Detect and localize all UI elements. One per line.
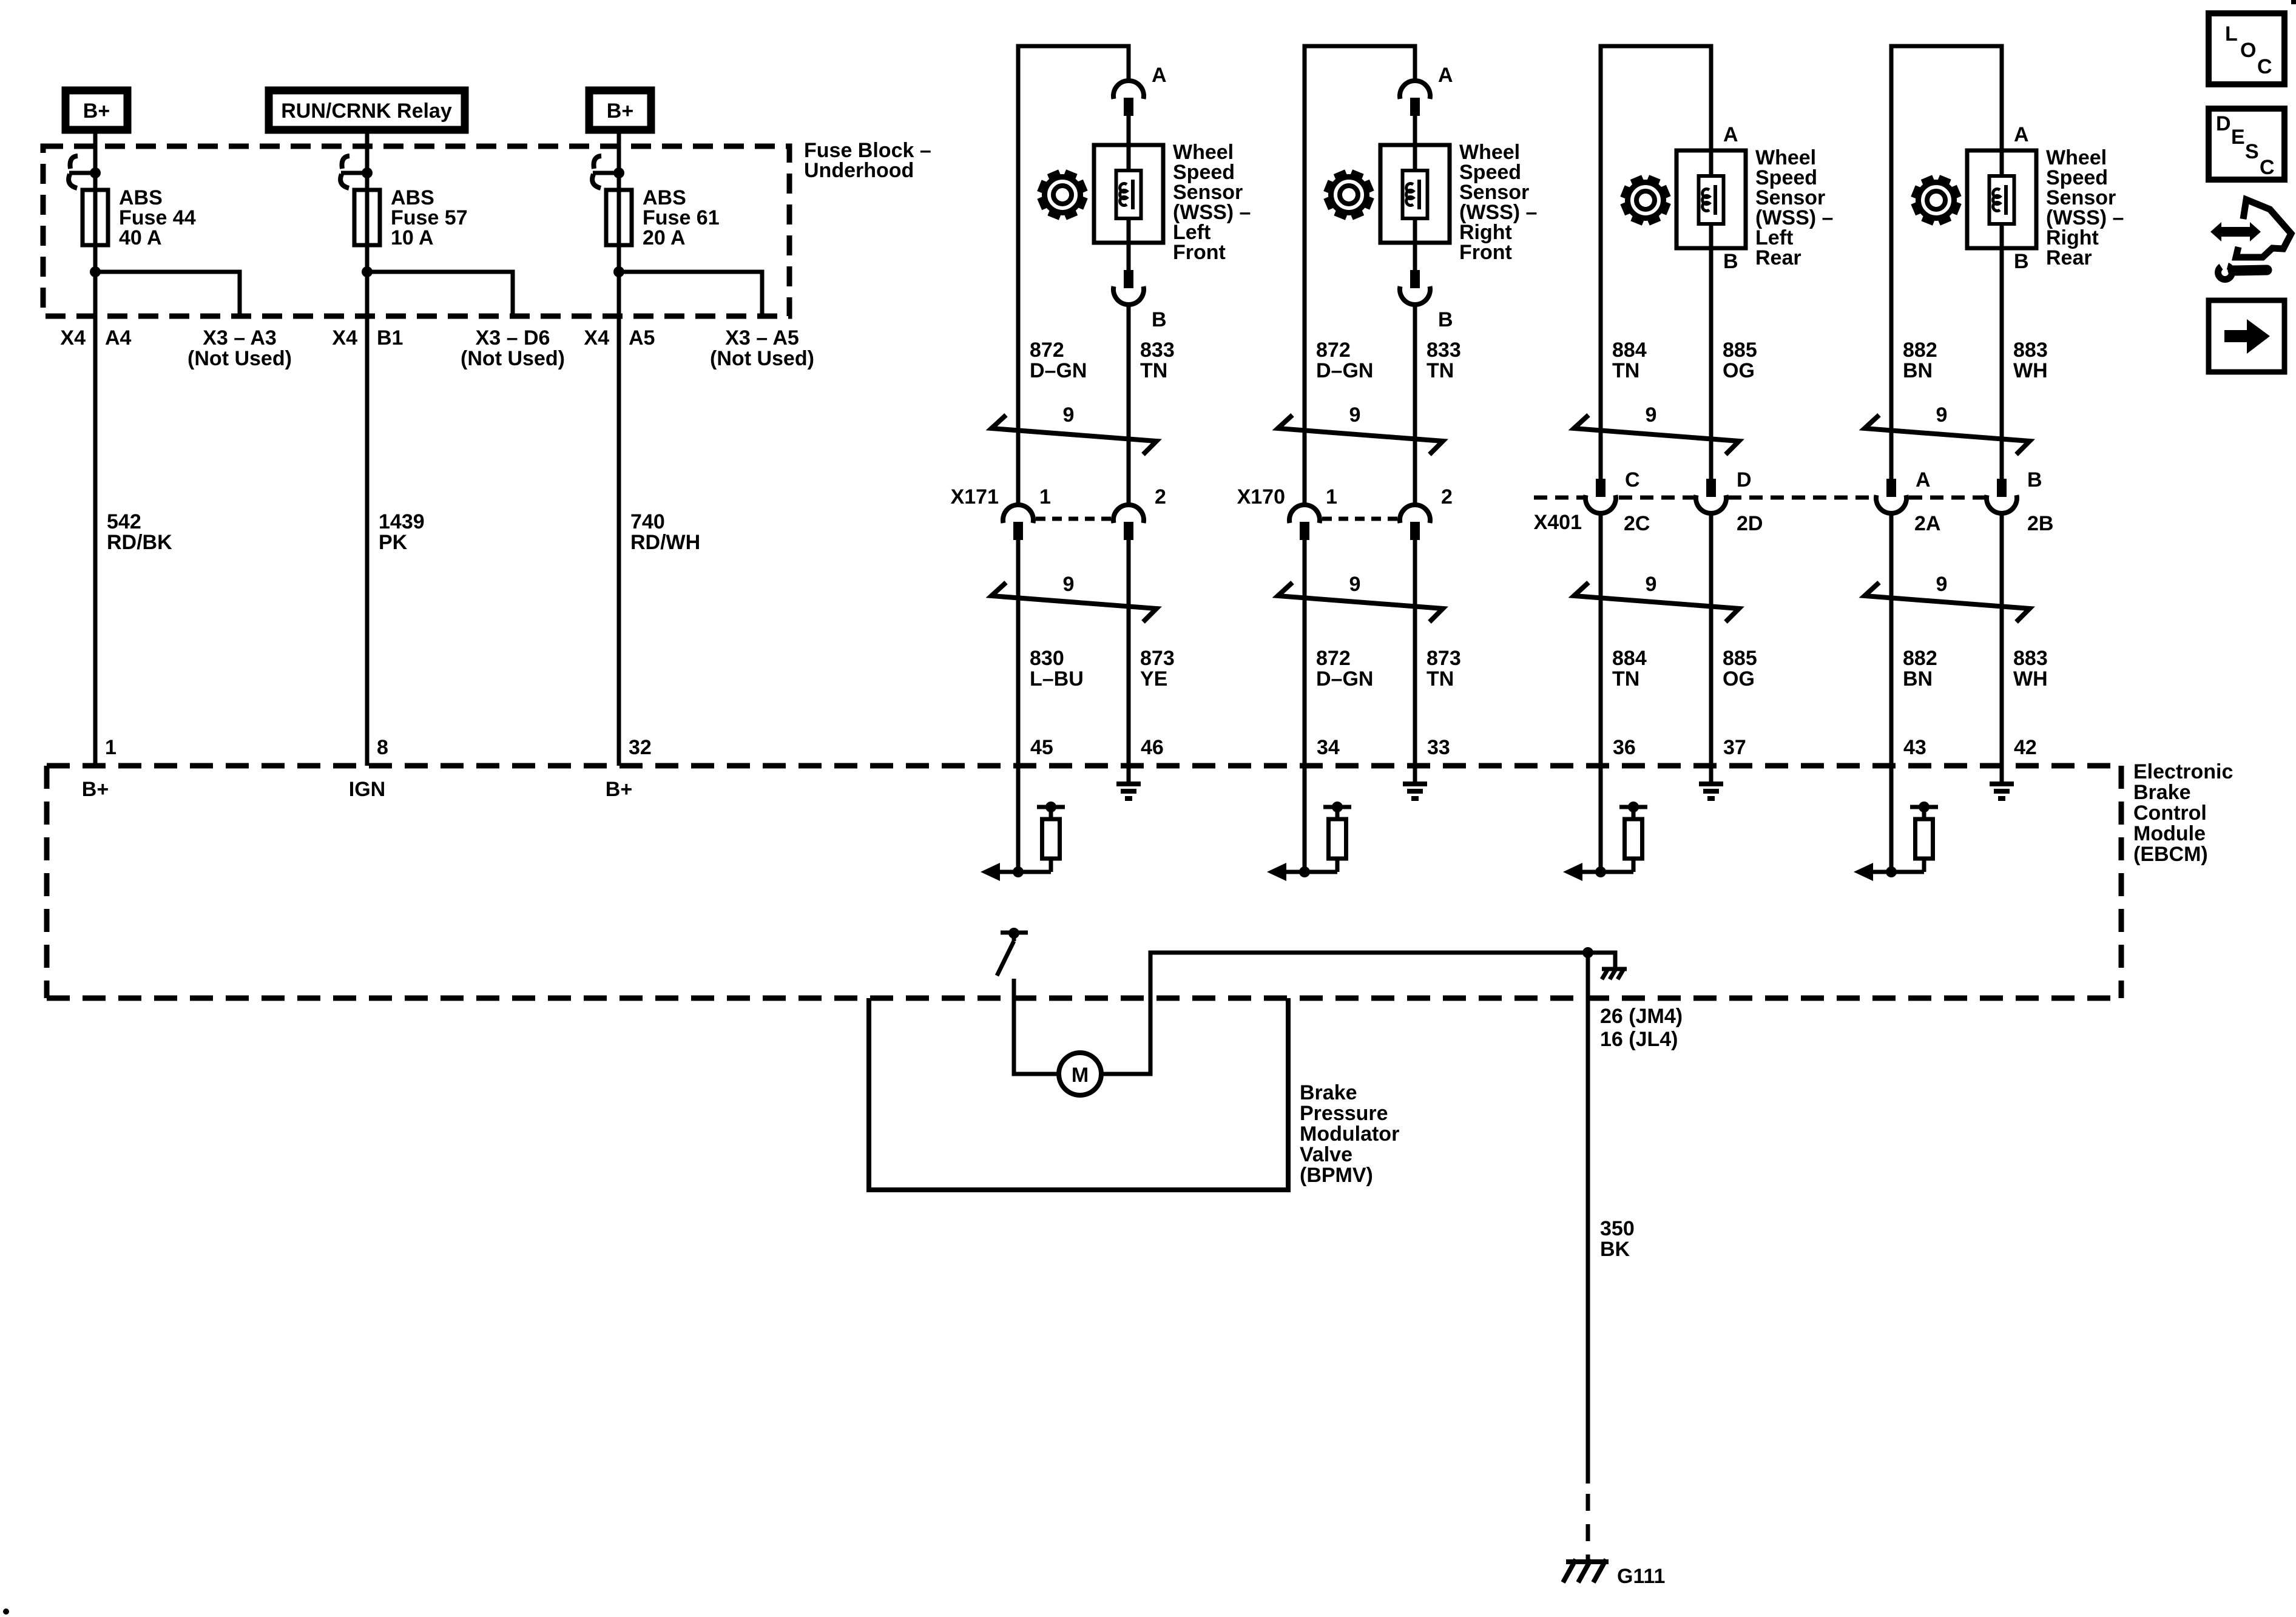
svg-text:46: 46 bbox=[1141, 736, 1164, 759]
svg-text:9: 9 bbox=[1349, 573, 1361, 596]
svg-text:2: 2 bbox=[1441, 485, 1453, 508]
svg-text:350: 350 bbox=[1600, 1217, 1635, 1240]
fuse Fuse 61 20 A bbox=[606, 190, 632, 245]
svg-text:Pressure: Pressure bbox=[1300, 1102, 1388, 1125]
svg-text:9: 9 bbox=[1063, 573, 1075, 596]
bus tap hook at fuse Fuse 57 bbox=[340, 156, 349, 188]
svg-text:X401: X401 bbox=[1534, 511, 1582, 534]
svg-text:8: 8 bbox=[377, 736, 388, 759]
svg-text:9: 9 bbox=[1936, 403, 1948, 427]
svg-text:A4: A4 bbox=[105, 326, 132, 349]
svg-text:872: 872 bbox=[1316, 339, 1351, 362]
svg-text:883: 883 bbox=[2013, 647, 2048, 670]
svg-text:9: 9 bbox=[1349, 403, 1361, 427]
svg-text:B: B bbox=[1438, 308, 1453, 331]
WSS 2 connector A pin bbox=[1410, 98, 1420, 116]
wire bbox=[1127, 243, 1131, 270]
svg-text:833: 833 bbox=[1427, 339, 1461, 362]
svg-text:TN: TN bbox=[1612, 667, 1639, 690]
svg-text:PK: PK bbox=[379, 531, 408, 554]
EBCM internal bias resistor bbox=[1632, 859, 1636, 872]
WSS 2 connector B pin bbox=[1410, 270, 1420, 288]
wire 350 BK to ground bbox=[1586, 953, 1590, 1484]
svg-text:1: 1 bbox=[1326, 485, 1337, 508]
svg-text:M: M bbox=[1072, 1064, 1089, 1087]
svg-text:X171: X171 bbox=[951, 485, 999, 508]
wires below connector bbox=[1303, 540, 1307, 766]
svg-text:885: 885 bbox=[1723, 339, 1757, 362]
EBCM internal driver arrow at pin column bbox=[1582, 870, 1633, 874]
svg-text:Control: Control bbox=[2133, 802, 2207, 825]
junction and branch to unused terminal bbox=[90, 266, 101, 277]
svg-text:(Not Used): (Not Used) bbox=[461, 347, 565, 370]
svg-text:Valve: Valve bbox=[1300, 1143, 1352, 1166]
svg-text:10 A: 10 A bbox=[391, 226, 434, 249]
svg-text:L–BU: L–BU bbox=[1030, 667, 1084, 690]
svg-text:TN: TN bbox=[1427, 667, 1454, 690]
svg-text:42: 42 bbox=[2014, 736, 2037, 759]
harness routing icon (arrow, panel outline, wrench) bbox=[2210, 222, 2261, 241]
svg-text:A5: A5 bbox=[629, 326, 655, 349]
svg-text:A: A bbox=[1916, 468, 1931, 491]
svg-text:9: 9 bbox=[1936, 573, 1948, 596]
wire from B+ box down through fuse Fuse 61 bbox=[617, 133, 621, 766]
svg-text:L: L bbox=[2225, 22, 2238, 46]
svg-text:D: D bbox=[2216, 112, 2231, 135]
svg-text:G111: G111 bbox=[1617, 1565, 1665, 1588]
svg-text:740: 740 bbox=[630, 510, 665, 533]
svg-text:TN: TN bbox=[1427, 359, 1454, 382]
wires below connector bbox=[1889, 514, 1894, 766]
svg-text:A: A bbox=[1438, 64, 1453, 87]
svg-text:WH: WH bbox=[2013, 359, 2048, 382]
sensor element 4 bbox=[1990, 176, 2014, 224]
svg-text:D–GN: D–GN bbox=[1316, 667, 1373, 690]
svg-text:B: B bbox=[2014, 250, 2029, 273]
svg-text:B: B bbox=[2027, 468, 2042, 491]
svg-text:Underhood: Underhood bbox=[804, 159, 914, 182]
svg-text:20 A: 20 A bbox=[643, 226, 686, 249]
WSS group 4: harness loop wires bbox=[1891, 46, 2002, 479]
ground symbol inside EBCM pin 33 bbox=[1403, 781, 1427, 786]
WSS group 3: harness loop wires bbox=[1601, 46, 1711, 479]
wires into EBCM bbox=[1889, 766, 1894, 872]
svg-text:RD/WH: RD/WH bbox=[630, 531, 700, 554]
svg-text:WH: WH bbox=[2013, 667, 2048, 690]
fuse Fuse 44 40 A bbox=[83, 190, 108, 245]
Fuse Block - Underhood dashed outline bbox=[43, 146, 789, 316]
EBCM internal driver arrow at pin column bbox=[1872, 870, 1924, 874]
svg-text:(EBCM): (EBCM) bbox=[2133, 843, 2208, 866]
svg-text:B+: B+ bbox=[83, 100, 110, 123]
WSS 1 connector A pin bbox=[1124, 98, 1133, 116]
svg-text:B: B bbox=[1723, 250, 1738, 273]
svg-text:36: 36 bbox=[1613, 736, 1636, 759]
svg-text:C: C bbox=[2257, 55, 2272, 78]
power feed box B+ (right) bbox=[589, 90, 651, 130]
EBCM internal driver arrow at pin column bbox=[1286, 870, 1337, 874]
svg-text:873: 873 bbox=[1427, 647, 1461, 670]
svg-text:A: A bbox=[1723, 123, 1738, 146]
svg-text:882: 882 bbox=[1903, 339, 1937, 362]
direction arrow legend box bbox=[2209, 300, 2284, 372]
svg-text:1439: 1439 bbox=[379, 510, 425, 533]
DESC legend box bbox=[2209, 109, 2284, 180]
svg-text:9: 9 bbox=[1063, 403, 1075, 427]
RUN/CRNK Relay box bbox=[269, 90, 465, 130]
wheel speed sensor box 4 bbox=[1967, 150, 2036, 248]
wire bbox=[1413, 116, 1417, 145]
gear icon 3 bbox=[1620, 175, 1671, 226]
svg-text:Rear: Rear bbox=[1755, 246, 1801, 269]
svg-text:43: 43 bbox=[1903, 736, 1926, 759]
svg-text:RUN/CRNK Relay: RUN/CRNK Relay bbox=[281, 100, 452, 123]
wires into EBCM bbox=[1016, 766, 1021, 872]
twisted pair symbol upper group 4 bbox=[1865, 415, 2030, 454]
twisted pair symbol upper group 1 bbox=[991, 415, 1156, 454]
svg-text:40 A: 40 A bbox=[119, 226, 162, 249]
EBCM internal pump switch bbox=[1001, 931, 1028, 935]
svg-text:542: 542 bbox=[107, 510, 141, 533]
svg-text:37: 37 bbox=[1723, 736, 1746, 759]
sensor element 2 bbox=[1403, 170, 1428, 218]
wheel speed sensor box 3 bbox=[1676, 150, 1746, 248]
gear icon 4 bbox=[1911, 175, 1962, 226]
WSS 2 connector B (female) bbox=[1400, 286, 1430, 305]
svg-text:D–GN: D–GN bbox=[1316, 359, 1373, 382]
wheel speed sensor box 2 bbox=[1413, 145, 1417, 243]
svg-text:TN: TN bbox=[1612, 359, 1639, 382]
svg-text:Brake: Brake bbox=[2133, 781, 2191, 804]
EBCM internal bias resistor bbox=[1922, 859, 1926, 872]
svg-text:833: 833 bbox=[1140, 339, 1175, 362]
svg-text:Module: Module bbox=[2133, 822, 2206, 845]
twisted pair symbol lower group 3 bbox=[1574, 582, 1739, 622]
svg-text:BK: BK bbox=[1600, 1238, 1630, 1261]
Electronic Brake Control Module dashed outline bbox=[47, 763, 2121, 769]
svg-text:(BPMV): (BPMV) bbox=[1300, 1164, 1373, 1187]
svg-text:X4: X4 bbox=[60, 326, 86, 349]
svg-text:1: 1 bbox=[105, 736, 116, 759]
svg-text:873: 873 bbox=[1140, 647, 1175, 670]
svg-text:X4: X4 bbox=[584, 326, 609, 349]
svg-text:Front: Front bbox=[1173, 241, 1226, 264]
svg-text:B+: B+ bbox=[82, 778, 109, 801]
wire from motor to EBCM ground junction bbox=[1101, 953, 1588, 1074]
svg-text:S: S bbox=[2245, 140, 2259, 163]
svg-text:OG: OG bbox=[1723, 667, 1755, 690]
svg-text:BN: BN bbox=[1903, 359, 1933, 382]
gear icon 1 bbox=[1037, 169, 1088, 220]
gear icon 2 bbox=[1323, 169, 1374, 220]
svg-text:2A: 2A bbox=[1914, 512, 1940, 535]
X401 connector dashed link line bbox=[1534, 496, 1584, 500]
svg-text:IGN: IGN bbox=[349, 778, 385, 801]
svg-text:B+: B+ bbox=[606, 778, 632, 801]
wires into EBCM bbox=[1303, 766, 1307, 872]
svg-text:A: A bbox=[1152, 64, 1167, 87]
svg-text:Rear: Rear bbox=[2046, 246, 2092, 269]
svg-text:B: B bbox=[1152, 308, 1167, 331]
EBCM case ground stub bbox=[1588, 953, 1615, 967]
power feed box B+ (left) bbox=[66, 90, 127, 130]
svg-text:884: 884 bbox=[1612, 647, 1647, 670]
svg-text:32: 32 bbox=[629, 736, 652, 759]
svg-text:884: 884 bbox=[1612, 339, 1647, 362]
svg-text:1: 1 bbox=[1039, 485, 1051, 508]
page corner mark bottom-left bbox=[3, 1609, 9, 1615]
svg-text:D–GN: D–GN bbox=[1030, 359, 1087, 382]
svg-text:C: C bbox=[1625, 468, 1640, 491]
WSS 1 connector B pin bbox=[1124, 270, 1133, 288]
ground G111 symbol bbox=[1566, 1559, 1609, 1564]
EBCM internal bias resistor bbox=[1049, 859, 1053, 872]
svg-text:882: 882 bbox=[1903, 647, 1937, 670]
EBCM internal bias resistor bbox=[1335, 859, 1340, 872]
sensor element 3 bbox=[1699, 176, 1724, 224]
svg-text:2D: 2D bbox=[1737, 512, 1763, 535]
svg-text:X170: X170 bbox=[1237, 485, 1285, 508]
twisted pair symbol upper group 2 bbox=[1278, 415, 1443, 454]
twisted pair symbol lower group 1 bbox=[991, 582, 1156, 622]
svg-text:(Not Used): (Not Used) bbox=[187, 347, 292, 370]
wire bbox=[1413, 305, 1417, 505]
svg-text:872: 872 bbox=[1316, 647, 1351, 670]
wire bbox=[1127, 116, 1131, 145]
fuse Fuse 57 10 A bbox=[354, 190, 380, 245]
svg-text:883: 883 bbox=[2013, 339, 2048, 362]
junction and branch to unused terminal bbox=[362, 266, 373, 277]
svg-text:2C: 2C bbox=[1624, 512, 1650, 535]
twisted pair symbol lower group 2 bbox=[1278, 582, 1443, 622]
svg-text:45: 45 bbox=[1030, 736, 1053, 759]
svg-text:2B: 2B bbox=[2027, 512, 2053, 535]
svg-text:X4: X4 bbox=[332, 326, 357, 349]
svg-text:C: C bbox=[2260, 156, 2275, 179]
svg-text:885: 885 bbox=[1723, 647, 1757, 670]
svg-text:Front: Front bbox=[1459, 241, 1512, 264]
sensor element 1 bbox=[1116, 170, 1141, 218]
svg-text:9: 9 bbox=[1646, 403, 1657, 427]
ground symbol inside EBCM pin 42 bbox=[1990, 781, 2014, 786]
EBCM internal driver arrow at pin column bbox=[999, 870, 1051, 874]
dashed wire segment to G111 bbox=[1586, 1494, 1590, 1565]
WSS group 1: harness loop wires bbox=[1018, 46, 1129, 505]
bus tap hook at fuse Fuse 61 bbox=[592, 156, 601, 188]
svg-text:X3 – D6: X3 – D6 bbox=[476, 326, 550, 349]
svg-text:OG: OG bbox=[1723, 359, 1755, 382]
WSS 1 connector A (female) bbox=[1113, 81, 1144, 99]
page corner mark top-right bbox=[2291, 0, 2296, 4]
twisted pair symbol upper group 3 bbox=[1574, 415, 1739, 454]
junction and branch to unused terminal bbox=[613, 266, 624, 277]
svg-text:E: E bbox=[2231, 126, 2245, 149]
svg-text:16 (JL4): 16 (JL4) bbox=[1600, 1028, 1678, 1051]
svg-text:26 (JM4): 26 (JM4) bbox=[1600, 1005, 1683, 1028]
svg-text:9: 9 bbox=[1646, 573, 1657, 596]
svg-text:34: 34 bbox=[1317, 736, 1340, 759]
bus tap hook at fuse Fuse 44 bbox=[69, 156, 78, 188]
wires below connector bbox=[1016, 540, 1021, 766]
svg-text:D: D bbox=[1737, 468, 1752, 491]
svg-text:A: A bbox=[2014, 123, 2029, 146]
svg-text:33: 33 bbox=[1427, 736, 1450, 759]
svg-text:RD/BK: RD/BK bbox=[107, 531, 172, 554]
WSS 2 connector A (female) bbox=[1400, 81, 1430, 99]
wire from B+ box down through fuse Fuse 57 bbox=[365, 133, 370, 766]
wire bbox=[1413, 243, 1417, 270]
svg-text:TN: TN bbox=[1140, 359, 1167, 382]
ground symbol inside EBCM pin 46 bbox=[1116, 781, 1141, 786]
svg-text:B+: B+ bbox=[607, 100, 633, 123]
pump motor M bbox=[1059, 1053, 1101, 1095]
svg-text:B1: B1 bbox=[377, 326, 403, 349]
svg-text:X3 – A3: X3 – A3 bbox=[203, 326, 277, 349]
svg-text:830: 830 bbox=[1030, 647, 1064, 670]
twisted pair symbol lower group 4 bbox=[1865, 582, 2030, 622]
BPMV outline bbox=[869, 998, 1288, 1190]
svg-text:O: O bbox=[2240, 39, 2256, 62]
svg-text:(Not Used): (Not Used) bbox=[710, 347, 814, 370]
WSS 1 connector B (female) bbox=[1113, 286, 1144, 305]
ground symbol inside EBCM pin 37 bbox=[1699, 781, 1723, 786]
wire bbox=[1127, 305, 1131, 505]
svg-text:BN: BN bbox=[1903, 667, 1933, 690]
wires below connector bbox=[1599, 514, 1603, 766]
wire from B+ box down through fuse Fuse 44 bbox=[93, 133, 98, 766]
svg-text:Modulator: Modulator bbox=[1300, 1122, 1399, 1146]
wires into EBCM bbox=[1599, 766, 1603, 872]
wire from switch to pump motor bbox=[1014, 979, 1059, 1074]
WSS group 2: harness loop wires bbox=[1305, 46, 1415, 505]
svg-text:X3 – A5: X3 – A5 bbox=[725, 326, 799, 349]
svg-text:YE: YE bbox=[1140, 667, 1167, 690]
svg-text:Brake: Brake bbox=[1300, 1081, 1357, 1104]
svg-text:Electronic: Electronic bbox=[2133, 760, 2233, 783]
svg-text:2: 2 bbox=[1155, 485, 1166, 508]
wheel speed sensor box 1 bbox=[1127, 145, 1131, 243]
LOC legend box bbox=[2209, 13, 2284, 84]
svg-text:872: 872 bbox=[1030, 339, 1064, 362]
